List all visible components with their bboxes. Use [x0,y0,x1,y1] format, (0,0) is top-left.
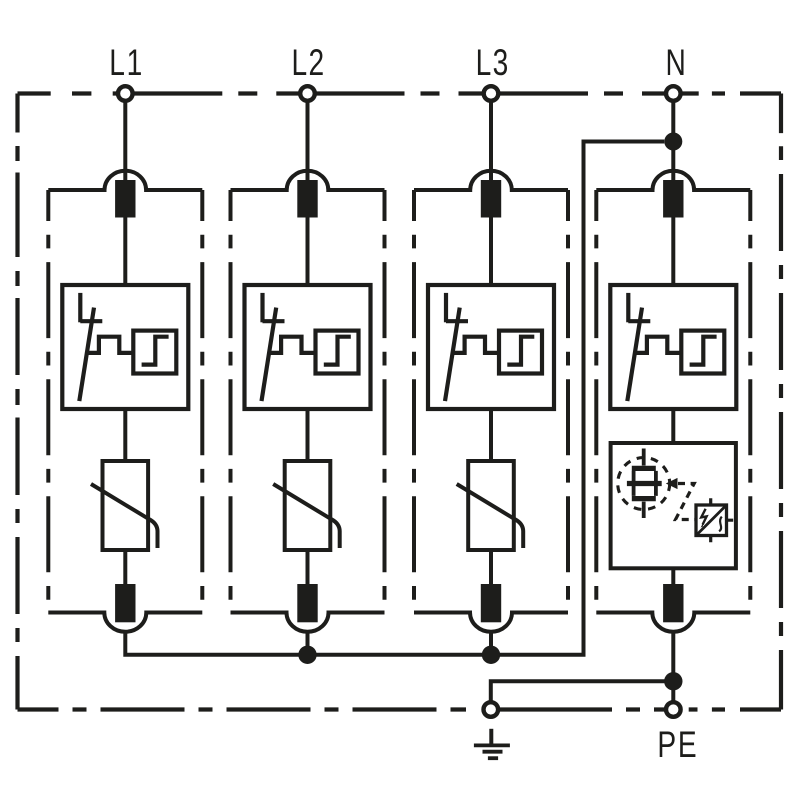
plug-in terminal contact bottom L2 [297,584,317,622]
wire disconnector to spark gap N [671,409,675,584]
protection path N module enclosure [596,171,750,632]
wire L2 bottom to bus [306,632,310,655]
wire disconnector to varistor L2 [306,409,310,584]
protection path L3 module enclosure [414,171,568,632]
svg-text:L: L [109,42,125,84]
earth terminal circle [484,702,499,717]
plug-in terminal contact top L3 [481,180,501,218]
device enclosure dashed border bottom [18,707,782,711]
terminal circle PE [666,702,681,717]
wire N terminal to disconnector [671,102,675,286]
terminal circle N [666,86,681,101]
wire disconnector to varistor L3 [489,409,493,584]
svg-text:3: 3 [493,42,509,84]
svg-text:2: 2 [308,42,324,84]
junction dot N top [664,133,682,151]
thermal disconnector with status indication L1 [62,285,188,409]
junction dot L3 bus [482,646,500,664]
terminal circle L3 [484,86,499,101]
varistor L2 [273,461,340,550]
device enclosure dashed border right [779,94,783,710]
wire L1 terminal to disconnector [123,102,127,286]
protection path L1 module enclosure [48,171,202,632]
svg-text:L: L [476,42,492,84]
gas discharge tube symbol in dashed circle [618,449,670,519]
wire L3 bottom to bus [489,632,493,655]
plug-in terminal contact bottom N [663,584,683,622]
trigger circuit box with impulse symbol [696,498,733,542]
svg-text:1: 1 [127,42,143,84]
wire N bottom to PE terminal [671,632,675,702]
svg-text:L: L [291,42,307,84]
triggered N-PE spark gap module box [611,443,736,568]
protection path L2 module enclosure [231,171,385,632]
trigger arrow pointing at spark gap [666,478,678,489]
plug-in terminal contact bottom L3 [481,584,501,622]
plug-in terminal contact bottom L1 [115,584,135,622]
varistor L1 [91,461,158,550]
wire common bus L1-L3 to N top [125,142,664,655]
device enclosure dashed border left [15,94,19,710]
device enclosure dashed border top [18,91,782,95]
wire N junction to earth terminal [491,681,674,701]
thermal disconnector with status indication L2 [245,285,371,409]
junction dot N bottom [664,672,682,690]
plug-in terminal contact top L2 [297,180,317,218]
svg-text:N: N [666,42,686,84]
junction dot L2 bus [298,646,316,664]
thermal disconnector with status indication N [610,285,736,409]
thermal disconnector with status indication L3 [428,285,554,409]
terminal circle L1 [118,86,133,101]
wire L2 terminal to disconnector [306,102,310,286]
terminal circle L2 [300,86,315,101]
ground symbol [474,729,510,758]
svg-text:E: E [678,724,697,766]
plug-in terminal contact top N [663,180,683,218]
svg-text:P: P [657,724,676,766]
wire L3 terminal to disconnector [489,102,493,286]
varistor L3 [457,461,524,550]
dashed trigger line [676,484,697,520]
plug-in terminal contact top L1 [115,180,135,218]
wire disconnector to varistor L1 [123,409,127,584]
